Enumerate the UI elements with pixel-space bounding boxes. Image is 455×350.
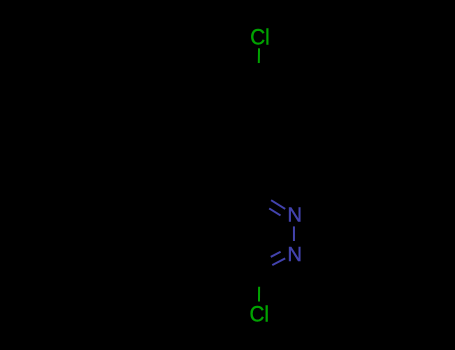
fusion bond C4a=C8a (double) — [219, 210, 221, 250]
phenyl edge C1'=C6' (double) — [225, 138, 259, 158]
bond phenyl C1'-C4 (biaryl link) — [257, 158, 259, 192]
benzo edge C8-C8a — [186, 249, 220, 269]
phenyl edge C6'-C5' — [224, 98, 226, 138]
bond N3-N2 (blue) — [293, 226, 295, 241]
phenyl edge C2'-C1' — [259, 138, 293, 158]
benzo edge C5=C6 (double) — [152, 190, 186, 210]
benzo edge C4a-C5 — [186, 190, 220, 210]
bond C1-C8a — [220, 249, 260, 272]
phenyl edge C3'=C2' (double) — [292, 98, 294, 138]
svg-text:N: N — [287, 244, 302, 266]
phenyl edge C4'-C3' — [259, 78, 293, 98]
benzo edge C7=C8 (double) — [152, 249, 186, 269]
bond Cl-C4' (top chlorine, green half) — [258, 48, 260, 63]
bond N2=C1 (double, blue half) — [272, 258, 285, 265]
bond C4=N3 (double, blue half) — [257, 192, 271, 201]
svg-text:Cl: Cl — [250, 301, 270, 326]
bond C4a-C4 — [220, 192, 258, 210]
phenyl edge C5'=C4' (double) — [225, 78, 259, 98]
benzo edge C6-C7 — [151, 210, 153, 250]
bond C1-Cl (bottom chlorine, green half) — [258, 272, 260, 287]
svg-text:N: N — [287, 205, 302, 227]
svg-text:Cl: Cl — [250, 25, 270, 50]
